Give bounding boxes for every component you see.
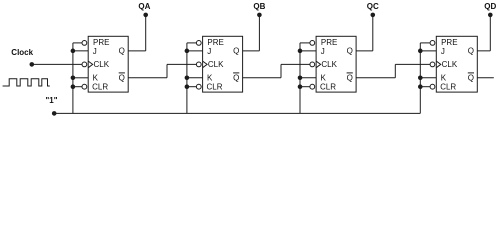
flip-flop FF1 body: [88, 36, 128, 92]
node FF4 CLR junction: [418, 84, 423, 89]
wire FF4 J input: [420, 50, 436, 52]
wire FF4 K input: [420, 77, 436, 79]
wire FF1 J input: [73, 50, 88, 52]
svg-text:Q: Q: [347, 74, 353, 83]
svg-text:"1": "1": [45, 96, 57, 105]
svg-text:Q: Q: [347, 47, 353, 56]
FF2 CLK negative-edge bubble: [196, 62, 201, 67]
svg-text:CLK: CLK: [94, 60, 110, 69]
svg-text:PRE: PRE: [207, 38, 223, 47]
FF3 Q-bar overbar: [347, 72, 353, 74]
node FF2 CLR junction: [185, 84, 190, 89]
node QA output terminal dot: [143, 13, 148, 18]
svg-text:CLK: CLK: [208, 60, 224, 69]
svg-text:J: J: [321, 47, 325, 56]
FF2 clock edge-trigger wedge: [203, 61, 208, 68]
wire QA output vertical: [145, 15, 147, 51]
wire FF1 Q output stub: [128, 50, 146, 52]
FF4 Q-bar overbar: [468, 72, 474, 74]
wire FF2 logic-1 vertical: [186, 43, 188, 114]
node FF2 K junction: [185, 76, 190, 81]
FF3 PRE active-low bubble: [310, 41, 315, 46]
node FF2 J junction: [185, 49, 190, 54]
svg-text:QD: QD: [484, 2, 496, 11]
FF3 CLK negative-edge bubble: [310, 62, 315, 67]
FF4 CLK negative-edge bubble: [430, 62, 435, 67]
svg-text:Q: Q: [233, 47, 239, 56]
node QD output terminal dot: [488, 13, 493, 18]
svg-text:PRE: PRE: [321, 38, 337, 47]
clock square-wave symbol: [3, 79, 50, 86]
wire FF1 logic-1 vertical: [72, 43, 74, 114]
svg-text:K: K: [93, 74, 99, 83]
node QC output terminal dot: [371, 13, 376, 18]
FF3 CLR active-low bubble: [310, 84, 315, 89]
FF1 CLK negative-edge bubble: [82, 62, 87, 67]
FF2 PRE active-low bubble: [196, 41, 201, 46]
wire FF1 CLR input: [73, 86, 82, 88]
FF1 Q-bar overbar: [119, 72, 125, 74]
node FF4 K junction: [418, 76, 423, 81]
svg-text:Q: Q: [468, 74, 474, 83]
flip-flop FF4 body: [436, 36, 477, 92]
wire FF2 J input: [187, 50, 203, 52]
svg-text:Q: Q: [233, 74, 239, 83]
wire FF3 Q output stub: [356, 50, 373, 52]
wire QC output vertical: [372, 15, 374, 51]
wire FF3 CLK feed vertical step: [280, 64, 282, 77]
wire FF4 PRE input: [420, 42, 430, 44]
wire FF4 CLK feed vertical step: [394, 64, 396, 77]
wire FF2 CLK feed vertical step: [166, 64, 168, 77]
FF1 PRE active-low bubble: [82, 41, 87, 46]
wire FF2 Q output stub: [243, 50, 260, 52]
svg-text:PRE: PRE: [441, 38, 457, 47]
svg-text:Q: Q: [119, 74, 125, 83]
svg-text:QC: QC: [367, 2, 379, 11]
FF4 clock edge-trigger wedge: [436, 61, 441, 68]
FF2 Q-bar overbar: [233, 72, 239, 74]
wire FF2 CLK feed horizontal: [167, 63, 196, 65]
svg-text:CLR: CLR: [207, 82, 223, 91]
svg-text:CLK: CLK: [321, 60, 337, 69]
svg-text:QA: QA: [138, 2, 150, 11]
FF3 clock edge-trigger wedge: [316, 61, 321, 68]
wire FF3 CLR input: [300, 86, 310, 88]
node "1" terminal dot: [52, 111, 57, 116]
wire FF3 Q-bar output to next stage CLK: [356, 77, 395, 79]
node FF1 J junction: [71, 49, 76, 54]
wire FF4 Q output stub: [477, 50, 490, 52]
svg-text:Q: Q: [119, 47, 125, 56]
svg-text:PRE: PRE: [93, 38, 109, 47]
FF4 PRE active-low bubble: [430, 41, 435, 46]
FF2 CLR active-low bubble: [196, 84, 201, 89]
node FF1 CLR junction: [71, 84, 76, 89]
wire FF3 J input: [300, 50, 316, 52]
node Clock input terminal dot: [30, 62, 35, 67]
svg-text:QB: QB: [253, 2, 265, 11]
svg-text:J: J: [441, 47, 445, 56]
svg-text:Q: Q: [468, 47, 474, 56]
FF4 CLR active-low bubble: [430, 84, 435, 89]
node FF3 J junction: [298, 49, 303, 54]
wire FF2 PRE input: [187, 42, 197, 44]
svg-text:J: J: [207, 47, 211, 56]
wire FF1 K input: [73, 77, 88, 79]
svg-text:K: K: [321, 74, 327, 83]
node FF3 CLR junction: [298, 84, 303, 89]
wire QD output vertical: [489, 15, 491, 51]
wire FF2 CLR input: [187, 86, 197, 88]
wire FF1 PRE input: [73, 42, 82, 44]
wire QB output vertical: [258, 15, 260, 51]
svg-text:CLR: CLR: [440, 82, 456, 91]
flip-flop FF2 body: [203, 36, 243, 92]
wire FF1 Q-bar output to next stage CLK: [128, 77, 167, 79]
wire FF2 K input: [187, 77, 203, 79]
node QB output terminal dot: [257, 13, 262, 18]
wire FF4 CLK feed horizontal: [395, 63, 430, 65]
wire FF4 Q-bar output stub: [477, 77, 494, 79]
node FF4 J junction: [418, 49, 423, 54]
wire Clock to FF1 CLK bubble: [32, 63, 82, 65]
svg-text:K: K: [441, 74, 447, 83]
wire FF3 PRE input: [300, 42, 310, 44]
wire FF3 K input: [300, 77, 316, 79]
wire logic-1 bottom rail: [54, 112, 420, 114]
svg-text:CLR: CLR: [92, 82, 108, 91]
svg-text:CLK: CLK: [442, 60, 458, 69]
wire FF3 CLK feed horizontal: [281, 63, 310, 65]
svg-text:K: K: [207, 74, 213, 83]
wire FF2 Q-bar output to next stage CLK: [243, 77, 281, 79]
FF1 CLR active-low bubble: [82, 84, 87, 89]
wire FF4 CLR input: [420, 86, 430, 88]
FF1 clock edge-trigger wedge: [88, 61, 93, 68]
svg-text:Clock: Clock: [11, 48, 33, 57]
node FF3 K junction: [298, 76, 303, 81]
node FF1 K junction: [71, 76, 76, 81]
svg-text:CLR: CLR: [320, 82, 336, 91]
wire FF4 logic-1 vertical: [419, 43, 421, 114]
wire FF3 logic-1 vertical: [299, 43, 301, 114]
svg-text:J: J: [93, 47, 97, 56]
flip-flop FF3 body: [316, 36, 356, 92]
